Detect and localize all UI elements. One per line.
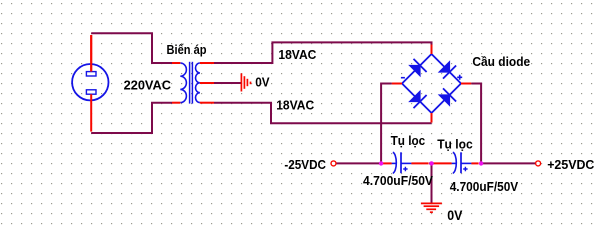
svg-text:0V: 0V xyxy=(255,75,270,90)
svg-text:Tụ lọc: Tụ lọc xyxy=(391,133,426,148)
svg-text:Tụ lọc: Tụ lọc xyxy=(437,136,473,151)
svg-text:220VAC: 220VAC xyxy=(124,77,172,92)
svg-text:4.700uF/50V: 4.700uF/50V xyxy=(450,179,519,194)
svg-text:+25VDC: +25VDC xyxy=(547,157,595,172)
svg-text:0V: 0V xyxy=(447,208,462,223)
svg-text:-25VDC: -25VDC xyxy=(284,157,326,172)
svg-text:18VAC: 18VAC xyxy=(276,97,315,112)
svg-text:4.700uF/50V: 4.700uF/50V xyxy=(363,173,433,188)
svg-text:18VAC: 18VAC xyxy=(278,47,317,62)
svg-text:Cầu diode: Cầu diode xyxy=(472,54,530,69)
svg-text:Biến áp: Biến áp xyxy=(167,42,207,57)
